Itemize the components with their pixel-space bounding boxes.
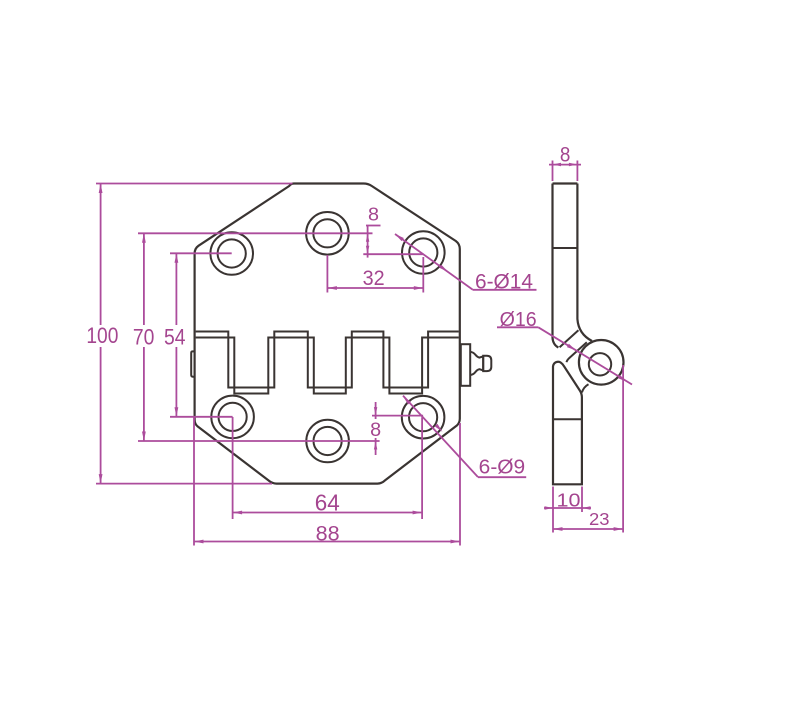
dimension 8 bottom line <box>375 402 377 419</box>
dimension 8 bottom arrows <box>374 407 377 416</box>
hole top-middle <box>306 212 349 255</box>
dimension 88 line <box>194 541 460 543</box>
side view upper strip <box>553 182 578 184</box>
svg-text:54: 54 <box>164 325 186 350</box>
hole bottom-middle <box>306 420 349 463</box>
knuckle boss outer circle <box>579 340 624 385</box>
extension line bottom-right hole <box>372 415 423 417</box>
dimension 32 arrows <box>327 286 337 290</box>
left edge tab <box>191 351 194 376</box>
dimension 10 line <box>544 507 591 509</box>
dimension 32 extension lines <box>326 255 328 293</box>
side view upper strip parting line <box>553 247 578 249</box>
hole top-left <box>210 232 253 275</box>
dimension 23 arrows <box>553 527 563 531</box>
leader Ø16 line <box>538 327 632 384</box>
svg-text:8: 8 <box>368 204 379 224</box>
grease nipple cap <box>483 356 491 371</box>
knuckle neck upper edge <box>560 330 579 347</box>
dimension 8 side line <box>549 164 581 166</box>
dimension 64 line <box>233 512 423 514</box>
svg-text:8: 8 <box>370 420 381 441</box>
knuckle bottom fillet <box>582 384 589 392</box>
leader 6-Ø9 line <box>403 396 478 477</box>
dimension 100 arrows <box>99 184 103 194</box>
dimension 70 extension lines <box>138 232 373 234</box>
plate outline (front view) <box>195 184 460 484</box>
svg-text:10: 10 <box>557 490 581 511</box>
svg-text:6-Ø14: 6-Ø14 <box>475 270 533 293</box>
dimension 54 arrows <box>175 253 179 262</box>
dimension 8 side arrows <box>553 163 562 166</box>
dimension 54 extension lines <box>170 252 232 254</box>
svg-text:Ø16: Ø16 <box>500 309 537 331</box>
grease nipple neck <box>471 352 484 375</box>
dimension 8 top arrows <box>366 233 369 242</box>
extension line top-right hole <box>363 253 423 255</box>
leader 6-Ø14 line <box>395 234 473 290</box>
hinge slot upper boundary <box>196 332 459 388</box>
hole bottom-left <box>211 396 254 439</box>
svg-text:32: 32 <box>363 266 385 290</box>
dimension 8 top reference line <box>366 225 381 227</box>
dimension 8 side extension lines <box>552 161 554 182</box>
hinge slot lower boundary <box>196 338 459 394</box>
svg-text:6-Ø9: 6-Ø9 <box>479 456 526 478</box>
leader Ø16 arrows <box>567 344 576 351</box>
knuckle neck lower edge <box>567 342 587 362</box>
dimension 64 extension lines <box>232 417 234 519</box>
svg-text:8: 8 <box>560 143 571 166</box>
svg-text:64: 64 <box>315 489 340 515</box>
dimension 88 arrows <box>194 540 204 544</box>
dimension 88 extension lines <box>193 417 195 546</box>
hole bottom-right <box>402 396 445 439</box>
grease nipple flange <box>461 344 470 386</box>
svg-text:70: 70 <box>133 325 155 350</box>
dimension 100 line <box>100 184 102 326</box>
pin hole circle <box>589 353 611 375</box>
dimension 70 line <box>143 233 145 325</box>
svg-text:100: 100 <box>86 323 118 348</box>
dimension 23 line <box>553 528 623 530</box>
dimension 70 arrows <box>142 233 146 243</box>
side view lower strip parting line <box>553 418 582 420</box>
dimension 8 top line <box>367 226 369 258</box>
svg-text:88: 88 <box>316 523 340 546</box>
dimension 54 line <box>175 253 177 325</box>
dimension 23 extension line <box>622 365 624 533</box>
dimension 100 extension lines <box>96 183 293 185</box>
side view lower strip <box>553 362 582 485</box>
dimension 64 arrows <box>233 511 243 515</box>
hole top-right <box>402 231 445 274</box>
leader 6-Ø9 arrows <box>403 396 411 404</box>
dimension 10 extension lines <box>552 487 554 533</box>
dimension 10 arrows <box>545 506 554 509</box>
dimension 32 line <box>327 287 423 289</box>
leader 6-Ø14 arrows <box>395 234 404 241</box>
svg-text:23: 23 <box>589 509 610 529</box>
